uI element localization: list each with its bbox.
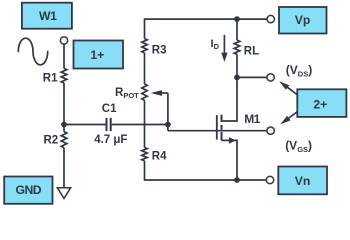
svg-text:ID: ID — [211, 38, 220, 51]
svg-text:R1: R1 — [43, 73, 58, 85]
svg-text:Vn: Vn — [295, 174, 311, 188]
svg-text:R4: R4 — [152, 151, 167, 163]
svg-text:M1: M1 — [244, 112, 260, 126]
scope channel box W1 — [22, 3, 72, 29]
svg-text:R2: R2 — [44, 135, 59, 147]
terminal Vn — [266, 176, 273, 183]
svg-text:GND: GND — [16, 183, 42, 197]
svg-text:Vp: Vp — [295, 13, 311, 27]
svg-text:(VDS): (VDS) — [286, 63, 312, 79]
wire RPOT wiper to node B — [167, 93, 169, 131]
wire RL branch top — [236, 19, 238, 40]
resistor R2 — [61, 132, 67, 148]
node A junction dot — [61, 122, 67, 128]
sine wave source W1 — [18, 38, 47, 65]
svg-text:W1: W1 — [39, 9, 57, 23]
wire gate to VGS terminal — [168, 130, 267, 132]
svg-text:C1: C1 — [102, 103, 117, 115]
supply box Vp — [279, 7, 327, 34]
wire C1 to node B — [112, 124, 168, 126]
terminal VDS — [267, 74, 274, 81]
wire W1 terminal to R1 — [63, 44, 65, 68]
terminal VGS — [267, 127, 274, 134]
supply box Vn — [278, 167, 327, 195]
junction dot top rail — [234, 16, 240, 22]
svg-text:2+: 2+ — [313, 97, 327, 111]
wire RPOT to R4 — [144, 100, 146, 147]
resistor R3 — [142, 39, 147, 53]
arrow 2+ to VDS — [279, 81, 297, 95]
wire R3 to RPOT — [144, 53, 146, 84]
wire node A to C1 — [64, 124, 106, 126]
wire drain lead — [222, 77, 238, 121]
scope channel box 1+ — [74, 41, 124, 69]
terminal W1 — [60, 37, 67, 44]
svg-text:R3: R3 — [152, 44, 167, 56]
svg-text:(VGS): (VGS) — [285, 139, 312, 155]
resistor R4 — [142, 148, 147, 161]
svg-text:1+: 1+ — [90, 48, 104, 62]
scope channel box GND — [4, 177, 52, 204]
wire drain node to VDS terminal — [237, 76, 267, 78]
svg-text:RL: RL — [244, 45, 259, 57]
capacitor C1 — [107, 118, 111, 131]
current arrow ID — [221, 35, 227, 62]
ground — [57, 188, 70, 199]
node B junction dot — [165, 122, 171, 128]
resistor RL — [234, 40, 240, 54]
wire R2 to ground — [63, 148, 65, 188]
wire node A to R2 — [63, 125, 65, 132]
potentiometer RPOT — [142, 84, 168, 100]
resistor R1 — [61, 68, 67, 83]
junction dot drain node — [234, 75, 240, 81]
wire top rail — [145, 19, 268, 39]
svg-text:RPOT: RPOT — [115, 87, 139, 100]
wire R4 to bottom rail — [145, 161, 267, 180]
transistor M1 — [217, 115, 236, 144]
junction dot bottom rail — [234, 177, 240, 183]
scope channel box 2+ — [297, 89, 346, 117]
wire RL to drain node — [236, 54, 238, 77]
svg-text:4.7 μF: 4.7 μF — [94, 134, 127, 146]
wire R1 to node A — [63, 83, 65, 125]
arrow 2+ to VGS — [280, 112, 297, 125]
wire source lead — [222, 140, 238, 180]
terminal Vp — [267, 15, 274, 22]
